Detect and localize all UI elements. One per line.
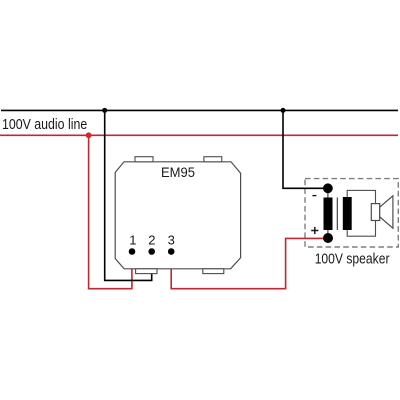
wire red from terminal 3 to speaker +: [171, 238, 328, 288]
transformer T1 secondary loop: [347, 190, 375, 236]
terminal 3: [168, 248, 175, 255]
wire red from red bus to terminal 1: [89, 135, 132, 288]
terminal 1: [129, 248, 136, 255]
svg-text:EM95: EM95: [161, 164, 195, 180]
terminal 2: [148, 248, 155, 255]
tab bottom left: [136, 269, 157, 274]
svg-text:3: 3: [168, 232, 175, 247]
svg-text:100V speaker: 100V speaker: [315, 251, 390, 268]
junction red bus: [86, 132, 92, 138]
terminal speaker minus: [323, 183, 333, 193]
module EM95 body: [115, 162, 240, 269]
transformer T1 primary lead bottom: [327, 230, 329, 238]
label plus: [311, 227, 318, 234]
svg-text:1: 1: [129, 232, 136, 247]
tab top left: [135, 157, 153, 162]
label minus: [312, 195, 316, 197]
speaker LS1 horn: [380, 196, 393, 228]
junction black bus left: [102, 108, 107, 113]
speaker LS1 driver: [371, 204, 379, 221]
transformer T1 primary winding: [324, 198, 333, 231]
dashed enclosure 100V speaker: [305, 179, 398, 247]
wire 100V audio line red bus: [0, 134, 398, 136]
wire black from black bus to speaker -: [283, 110, 328, 188]
wire black from black bus to terminal 2: [105, 110, 152, 280]
svg-text:2: 2: [148, 232, 155, 247]
svg-text:100V audio line: 100V audio line: [2, 116, 87, 133]
junction black bus right: [281, 108, 286, 113]
tab top right: [204, 157, 222, 162]
transformer T1 core: [336, 198, 338, 231]
terminal speaker plus: [323, 233, 333, 243]
transformer T1 primary lead top: [327, 188, 329, 197]
tab bottom right: [203, 269, 224, 274]
transformer T1 secondary winding: [343, 197, 352, 230]
wire 100V audio line black bus: [1, 109, 398, 111]
